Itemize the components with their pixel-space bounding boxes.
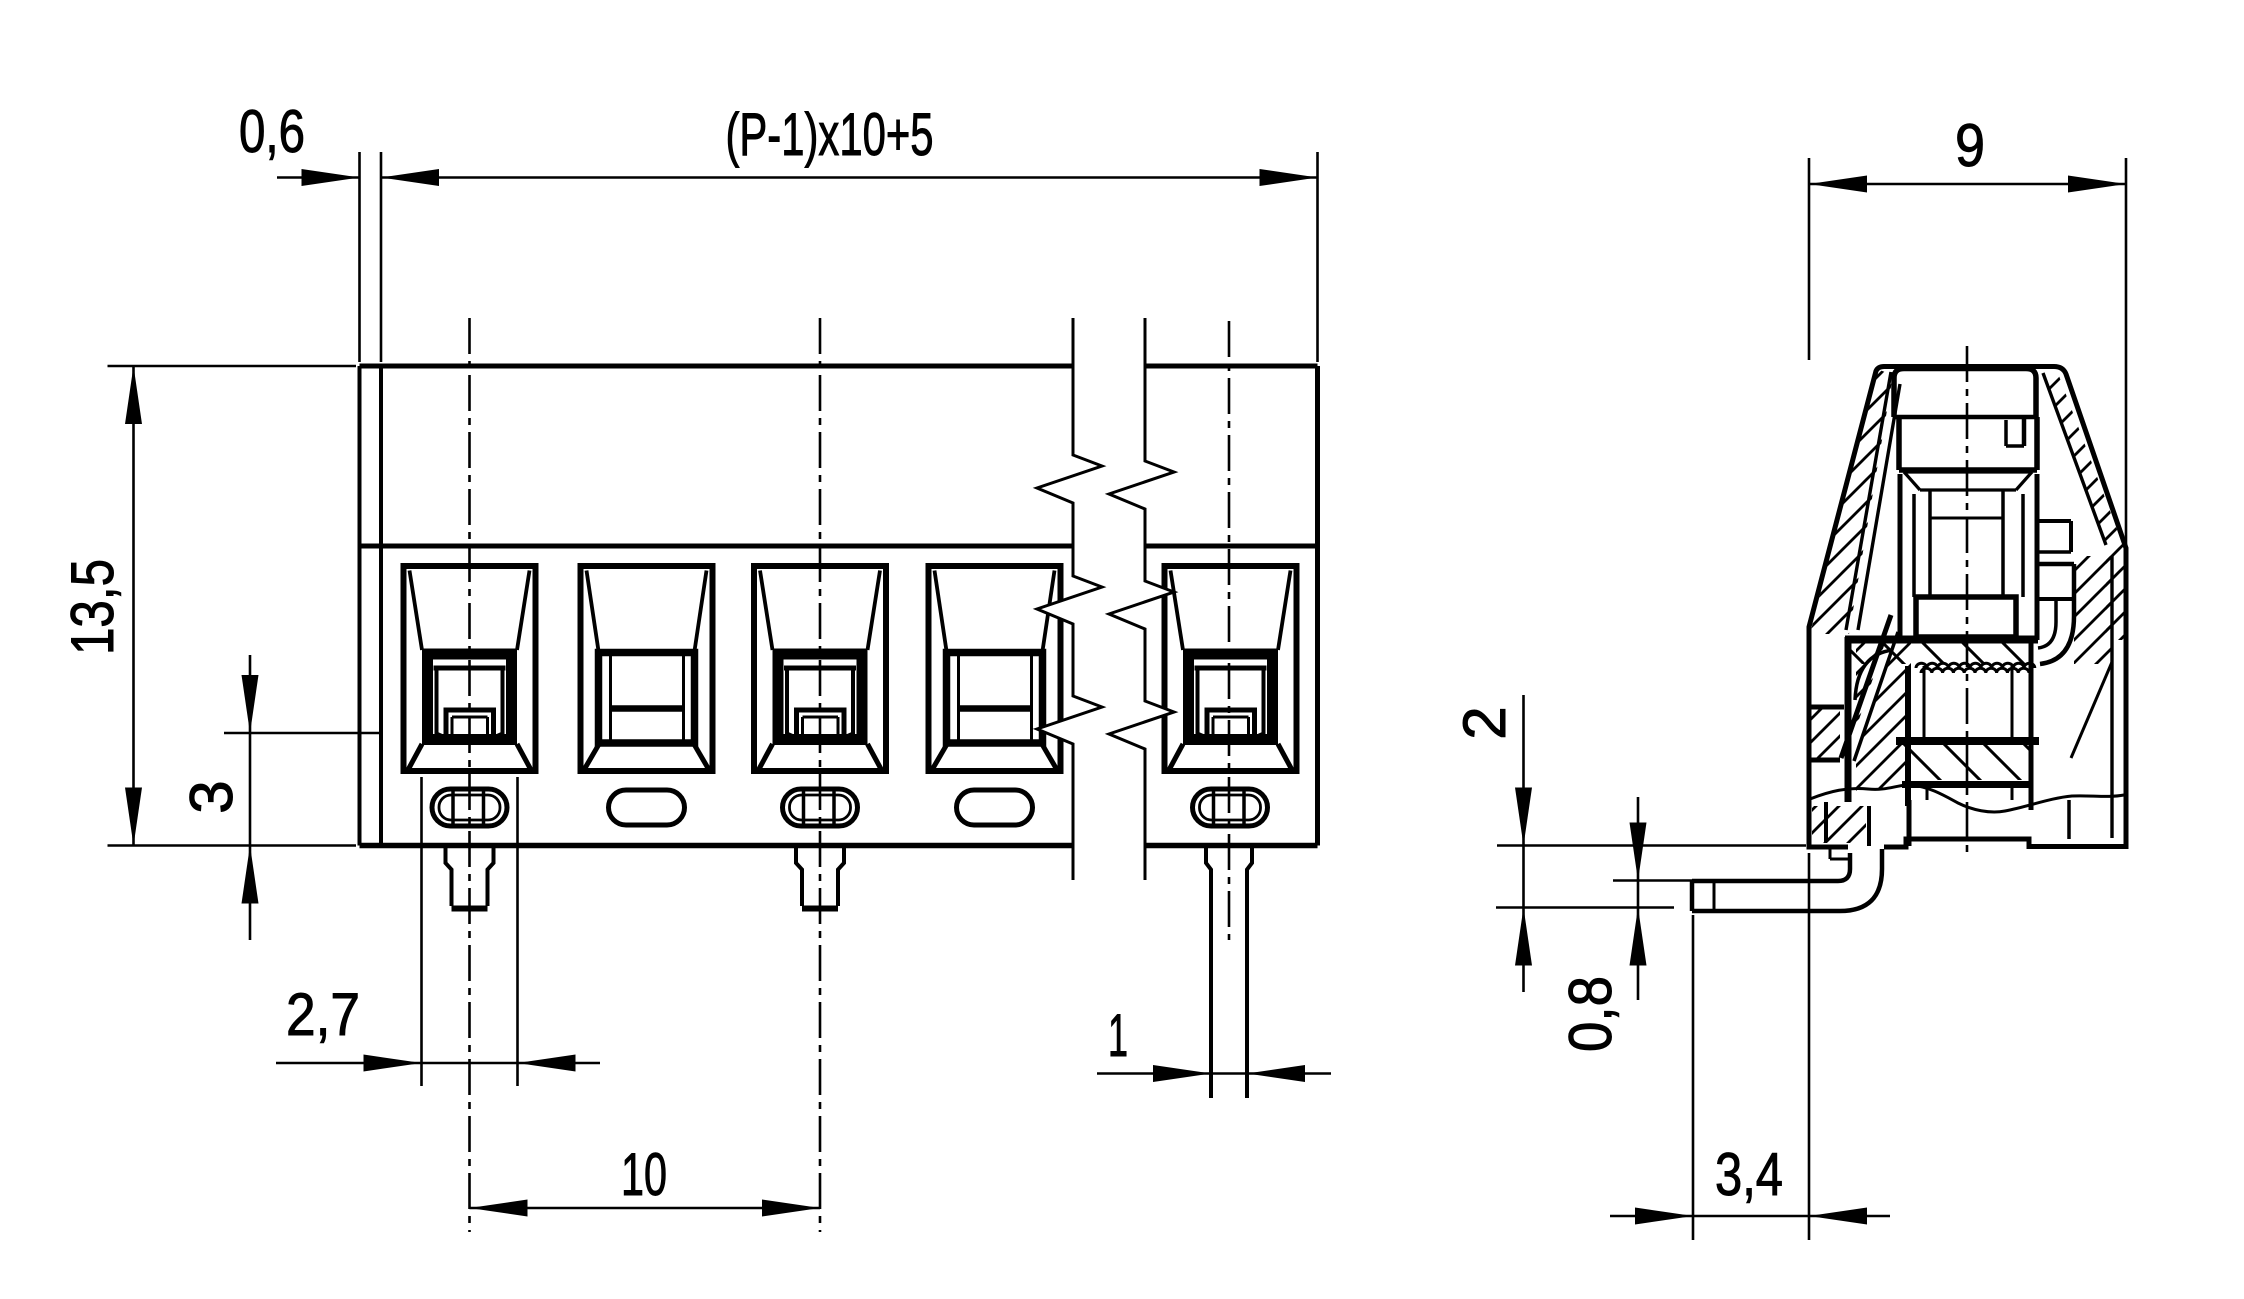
screw slot oval, center 469.5 — [432, 789, 507, 826]
centerline pin3 — [819, 318, 822, 1232]
left rib vertical — [1845, 637, 1852, 802]
shank and clamp upper — [1928, 490, 1932, 597]
dimension 0,8 — [1613, 879, 1700, 882]
plain oval, center 646.5 — [609, 790, 685, 825]
front view body outline — [360, 364, 1318, 369]
dimension 1 — [1097, 1072, 1331, 1075]
solder pin long wire, center 1229 — [1206, 848, 1211, 1098]
screw head — [1894, 369, 2036, 418]
ledges left wall — [1808, 705, 1844, 710]
screw thread squiggles — [1916, 663, 2035, 668]
dimension 0,6 and (P-1)x10+5 — [277, 176, 360, 179]
dimension 13,5 — [108, 365, 357, 368]
svg-text:(P-1)x10+5: (P-1)x10+5 — [726, 101, 934, 168]
solder pin short, center 469.5 — [446, 848, 452, 906]
washer chamfer — [1904, 470, 2032, 473]
terminal funnel with screw, center 469.5 — [404, 566, 536, 771]
dimension 2 side — [1497, 844, 1806, 847]
clamp bottom plate — [1896, 737, 2039, 745]
dimension 3 — [224, 732, 381, 735]
side: outer housing profile — [1809, 367, 2126, 848]
dimension 3,4 — [1692, 915, 1695, 1240]
svg-text:13,5: 13,5 — [59, 559, 126, 655]
svg-text:2,7: 2,7 — [286, 981, 360, 1048]
terminal funnel plain, center 646.5 — [581, 566, 713, 771]
side centerline — [1966, 346, 1969, 856]
screw slot oval, center 1230 — [1193, 789, 1268, 826]
side: housing hatch right — [2043, 368, 2124, 640]
svg-text:10: 10 — [621, 1141, 667, 1208]
terminal funnel plain, center 994.5 — [929, 566, 1061, 771]
break gap — [1037, 318, 1174, 880]
clamp cavity walls lower — [1905, 666, 1911, 806]
bent solder pin side — [1848, 853, 1853, 869]
svg-text:0,8: 0,8 — [1557, 976, 1624, 1052]
white slanted channel in left rib — [1846, 634, 1896, 761]
clamp top plate — [1845, 636, 2038, 644]
break line left — [1037, 318, 1102, 880]
svg-text:0,6: 0,6 — [239, 98, 305, 165]
svg-text:3,4: 3,4 — [1715, 1141, 1783, 1208]
break line right — [1109, 318, 1174, 880]
strap boxes right — [2037, 519, 2071, 523]
shank box (screw in nut) — [1916, 597, 2016, 637]
svg-text:2: 2 — [1451, 706, 1518, 739]
svg-text:1: 1 — [1108, 1002, 1128, 1069]
solder pin short, center 820 — [796, 848, 802, 906]
bottom zone verticals — [1824, 802, 1828, 842]
dimension 9 — [1808, 158, 1811, 360]
terminal funnel with screw, center 820 — [754, 566, 886, 771]
side: housing hatch left wedge — [1810, 369, 1893, 634]
dimension 10 — [470, 1207, 821, 1210]
svg-text:3: 3 — [178, 780, 245, 813]
inner cavity walls — [1846, 372, 1891, 630]
plain oval, center 994.5 — [957, 790, 1033, 825]
screw slot oval, center 820 — [783, 789, 858, 826]
wavy break line — [1810, 785, 2124, 812]
side: housing hatch left mid — [1810, 707, 1840, 760]
centerline pin5 — [1228, 321, 1231, 940]
centerline pin1 — [468, 318, 471, 1232]
dimension 2,7 — [420, 777, 423, 1086]
svg-text:9: 9 — [1955, 112, 1985, 179]
terminal funnel with screw, center 1230.5 — [1165, 566, 1297, 771]
